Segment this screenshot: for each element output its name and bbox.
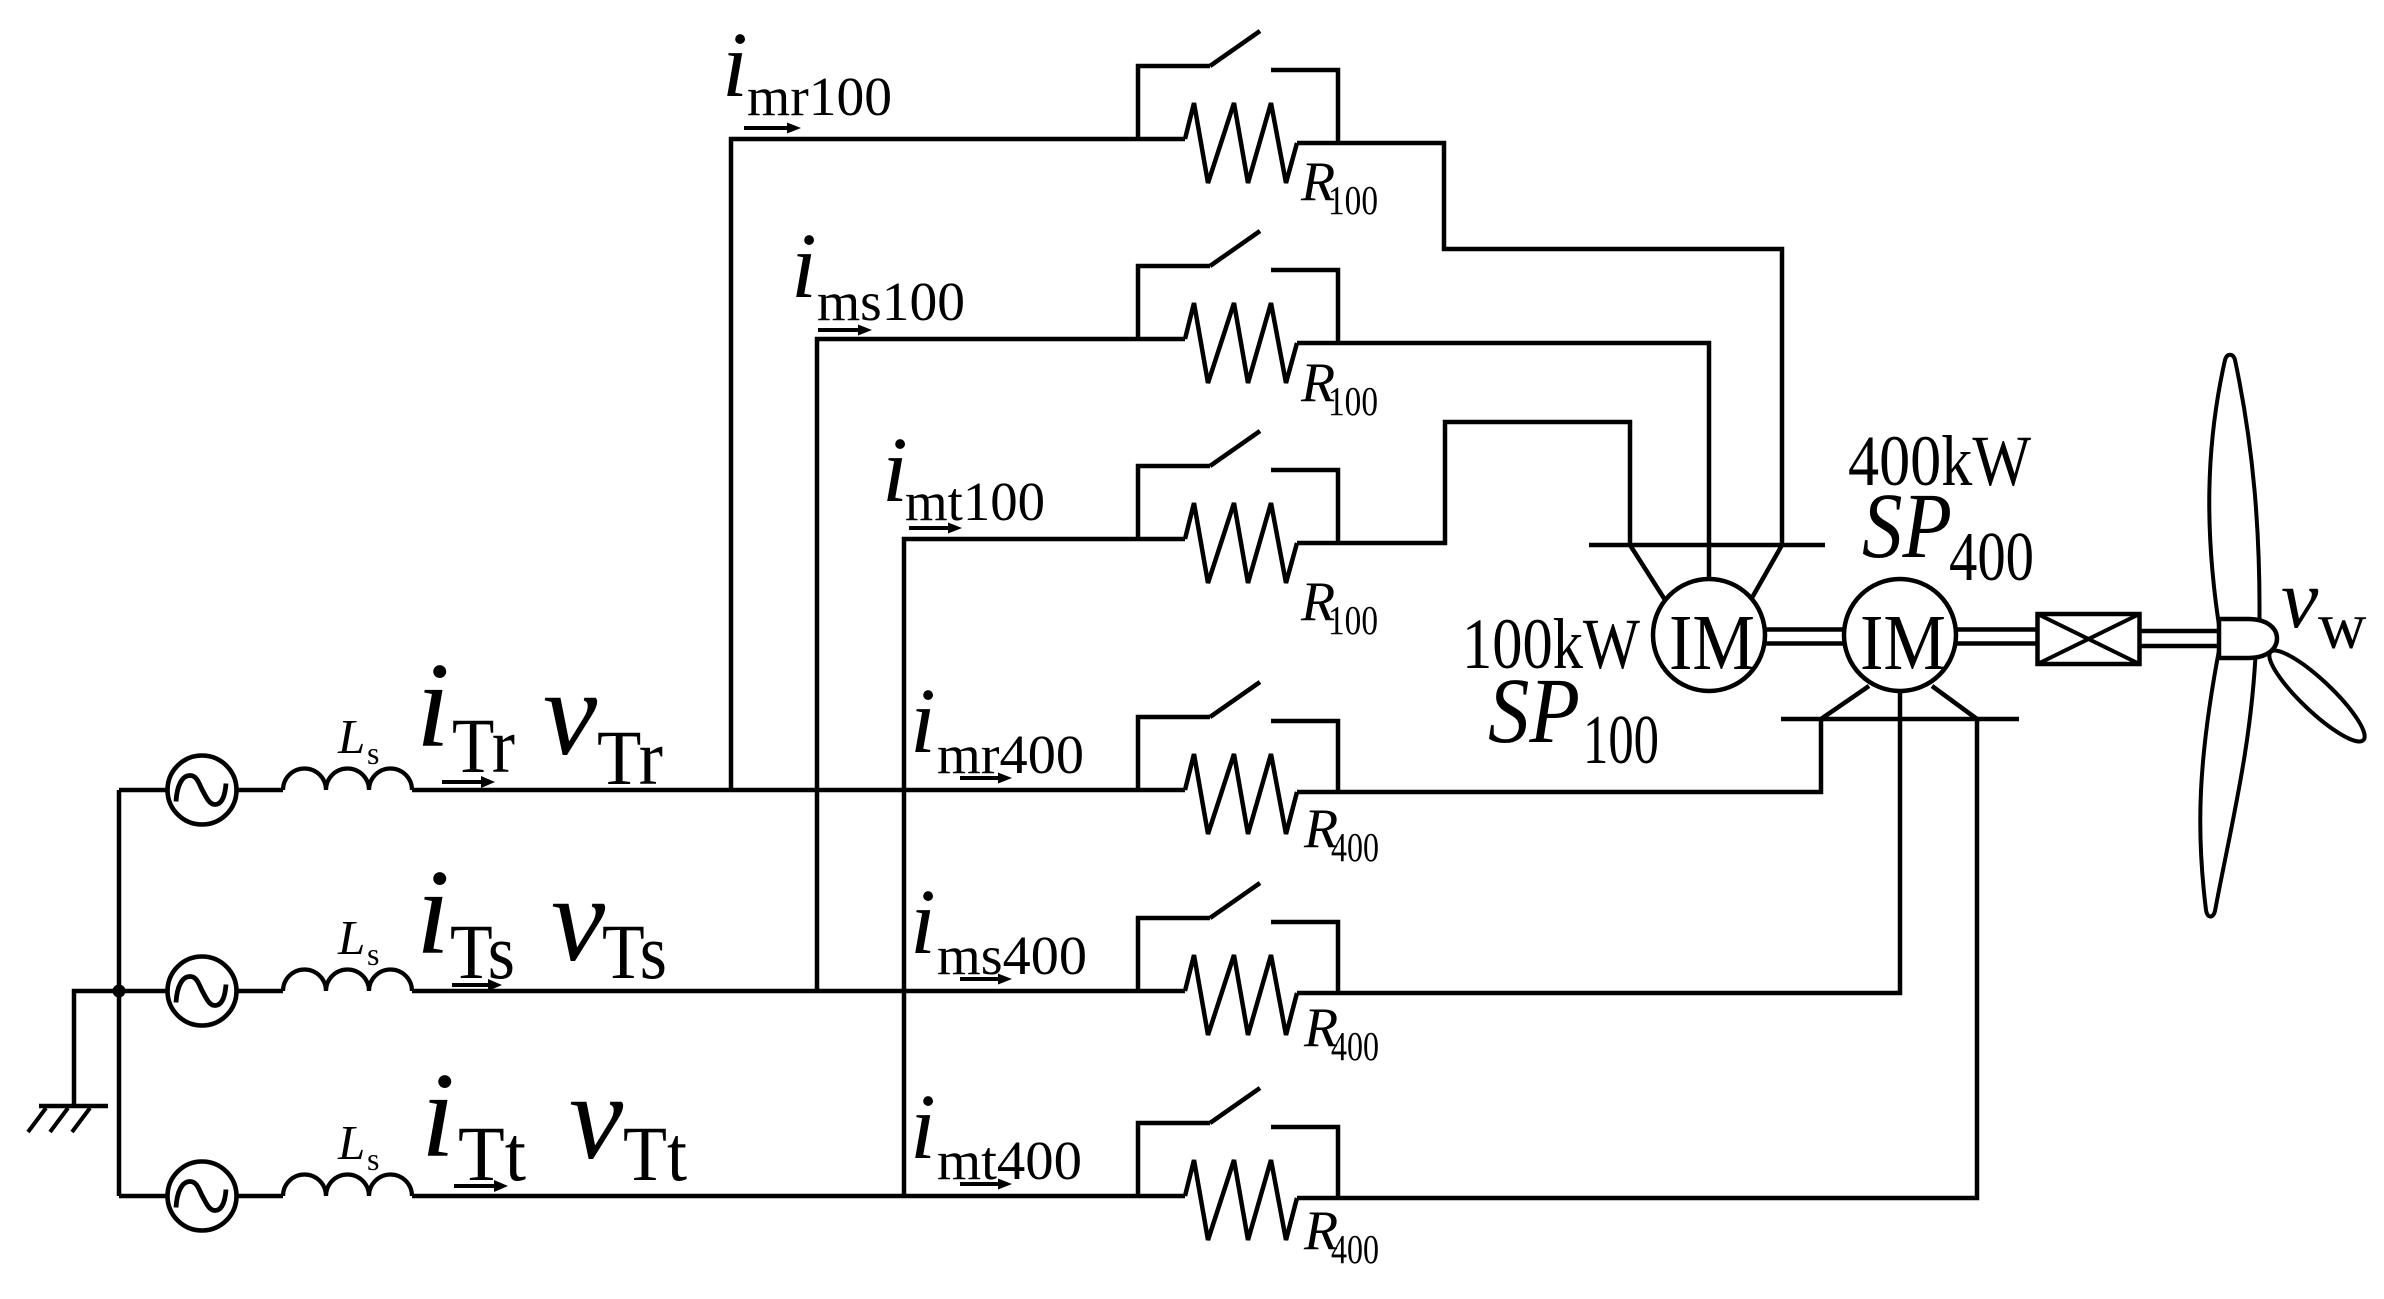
label vTt <box>569 1050 687 1197</box>
arrow imt100 <box>909 523 962 534</box>
wire row s main <box>412 989 1185 994</box>
inductor Ls row t <box>283 1175 412 1197</box>
svg-text:s: s <box>367 936 379 972</box>
svg-text:v: v <box>551 852 606 987</box>
svg-text:mr100: mr100 <box>747 66 892 127</box>
svg-text:mt100: mt100 <box>905 471 1045 532</box>
AC source Vt <box>168 1162 237 1231</box>
wire source Vs to inductor <box>237 989 284 994</box>
resistor R400 row s <box>1185 955 1297 1035</box>
svg-text:100: 100 <box>1328 378 1378 424</box>
wire row r main <box>412 788 1185 793</box>
svg-text:w: w <box>2318 589 2367 663</box>
svg-text:L: L <box>337 1115 365 1170</box>
shaft gearbox to hub <box>2140 631 2219 646</box>
svg-text:mr400: mr400 <box>937 724 1084 785</box>
ground <box>28 991 119 1132</box>
label R100 middle <box>1300 352 1378 424</box>
gearbox <box>2038 614 2140 664</box>
shaft IM400 to gearbox <box>1956 630 2037 644</box>
AC source Vr <box>168 756 237 825</box>
svg-text:400: 400 <box>1331 824 1379 870</box>
wire branch ims100 <box>817 339 1185 991</box>
AC source Vs <box>168 957 237 1026</box>
svg-text:Tr: Tr <box>452 702 515 789</box>
label imt400 <box>910 1076 1082 1191</box>
wire branch imt100 <box>904 539 1185 1196</box>
svg-text:SP: SP <box>1488 660 1580 763</box>
wire bus to source Vt <box>119 1194 168 1199</box>
arrow imt400 <box>960 1179 1012 1190</box>
label R400 row t <box>1303 1200 1379 1272</box>
svg-text:i: i <box>416 845 450 980</box>
inductor Ls row r <box>283 769 412 791</box>
label R100 top <box>1300 151 1378 223</box>
label R400 row r <box>1303 798 1379 870</box>
wire source Vr to inductor <box>237 788 284 793</box>
switch S5 <box>1138 883 1338 995</box>
arrow imr400 <box>960 773 1012 784</box>
svg-text:L: L <box>337 910 365 965</box>
wire IM100 stator leads <box>1630 545 1782 603</box>
label vTs <box>551 852 667 995</box>
svg-text:i: i <box>910 1076 936 1179</box>
wire left bus vertical <box>117 790 122 1196</box>
switch S2 <box>1138 231 1338 343</box>
svg-text:i: i <box>421 1048 455 1183</box>
svg-text:ms400: ms400 <box>937 925 1087 986</box>
wire R100 top to IM100 <box>1297 143 1782 545</box>
svg-text:100: 100 <box>1328 177 1378 223</box>
svg-text:Ts: Ts <box>450 908 515 995</box>
wire branch imr100 <box>731 139 1185 790</box>
label SP100 <box>1488 660 1659 779</box>
node bar IM400 stator <box>1781 717 2019 722</box>
label vw <box>2281 553 2367 663</box>
wire row t main <box>412 1194 1185 1199</box>
wire R100 middle to IM100 <box>1297 343 1709 545</box>
turbine blade up <box>2209 355 2259 650</box>
label ims400 <box>910 871 1087 986</box>
svg-text:i: i <box>910 670 936 773</box>
wire bus to source Vr <box>119 788 168 793</box>
node bar IM100 stator <box>1589 543 1825 548</box>
label imr400 <box>910 670 1084 785</box>
svg-text:400: 400 <box>1331 1226 1379 1272</box>
label SP400 <box>1862 475 2034 596</box>
motor IM100 <box>1653 579 1765 691</box>
label Ls row s <box>337 910 379 972</box>
label R100 bottom <box>1300 571 1378 643</box>
switch S4 <box>1138 682 1338 794</box>
svg-text:Ts: Ts <box>602 908 667 995</box>
arrow iTs <box>452 979 502 991</box>
resistor R100 top <box>1185 103 1297 183</box>
label vTr <box>543 646 663 801</box>
svg-text:400: 400 <box>1949 519 2034 596</box>
wire R400 row s to IM400 <box>1297 719 1900 993</box>
svg-text:Tt: Tt <box>623 1110 687 1197</box>
svg-text:v: v <box>569 1050 624 1185</box>
inductor Ls row s <box>283 969 412 991</box>
svg-text:i: i <box>910 871 936 974</box>
resistor R100 bottom <box>1185 503 1297 583</box>
switch S1 <box>1138 31 1338 143</box>
resistor R100 middle <box>1185 303 1297 383</box>
svg-text:100: 100 <box>1328 597 1378 643</box>
label iTs <box>416 845 515 995</box>
arrow iTr <box>442 776 495 788</box>
turbine blade down <box>2200 645 2256 917</box>
label iTt <box>421 1048 526 1197</box>
svg-text:v: v <box>2281 553 2319 646</box>
arrow ims100 <box>818 325 872 336</box>
label Ls row r <box>337 709 379 771</box>
turbine hub <box>2219 619 2277 658</box>
svg-text:s: s <box>367 1141 379 1177</box>
svg-text:IM: IM <box>1860 600 1946 687</box>
arrow ims400 <box>960 974 1012 985</box>
arrow imr100 <box>744 123 801 134</box>
svg-text:SP: SP <box>1862 475 1952 578</box>
switch S6 <box>1138 1088 1338 1200</box>
label Ls row t <box>337 1115 379 1177</box>
label imr100 <box>722 14 892 127</box>
switch S3 <box>1138 431 1338 543</box>
label imt100 <box>882 419 1045 532</box>
wire R400 row r to IM400 <box>1297 719 1821 792</box>
svg-text:mt400: mt400 <box>937 1130 1082 1191</box>
svg-text:s: s <box>367 735 379 771</box>
svg-text:i: i <box>882 419 908 522</box>
svg-text:Tr: Tr <box>597 714 663 801</box>
svg-text:v: v <box>543 646 598 781</box>
svg-text:L: L <box>337 709 365 764</box>
wire IM400 stator leads <box>1821 686 1977 719</box>
svg-text:i: i <box>791 215 817 318</box>
junction node <box>113 985 126 998</box>
wire R100 bottom to IM100 <box>1297 422 1630 545</box>
label iTr <box>416 638 515 789</box>
svg-text:100: 100 <box>1583 702 1659 779</box>
svg-text:400: 400 <box>1331 1023 1379 1069</box>
svg-text:ms100: ms100 <box>817 271 965 332</box>
resistor R400 row t <box>1185 1160 1297 1240</box>
label ims100 <box>791 215 965 332</box>
label R400 row s <box>1303 997 1379 1069</box>
svg-text:i: i <box>722 14 748 117</box>
shaft IM100 to IM400 <box>1765 630 1844 644</box>
svg-text:IM: IM <box>1669 600 1755 687</box>
resistor R400 row r <box>1185 754 1297 834</box>
motor IM400 <box>1844 579 1956 691</box>
wire R400 row t to IM400 <box>1297 719 1977 1198</box>
svg-text:Tt: Tt <box>458 1110 526 1197</box>
arrow iTt <box>454 1180 508 1192</box>
svg-text:i: i <box>416 638 450 773</box>
turbine blade diagonal <box>2260 641 2374 752</box>
wire source Vt to inductor <box>237 1194 284 1199</box>
wire bus to source Vs <box>119 989 168 994</box>
